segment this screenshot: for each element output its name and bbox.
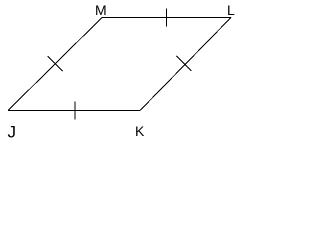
svg-text:J: J bbox=[8, 123, 17, 142]
svg-text:K: K bbox=[135, 123, 145, 139]
side KL (right diagonal) bbox=[140, 18, 231, 111]
tick mark on side JK bbox=[74, 102, 76, 120]
svg-text:L: L bbox=[227, 2, 235, 18]
side JK (bottom) bbox=[8, 110, 140, 112]
svg-text:M: M bbox=[95, 2, 107, 18]
tick mark on side JM bbox=[48, 56, 63, 71]
side ML (top) bbox=[102, 17, 231, 19]
tick mark on side ML bbox=[166, 9, 168, 27]
tick mark on side KL bbox=[177, 56, 192, 71]
side JM (left diagonal) bbox=[8, 18, 102, 111]
